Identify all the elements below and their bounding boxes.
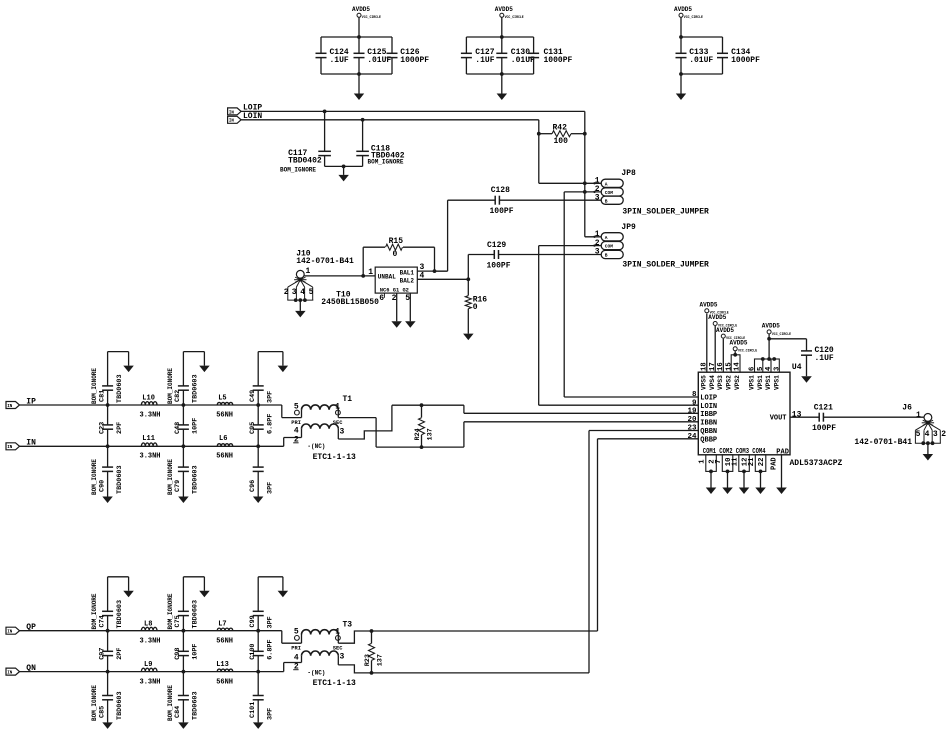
svg-text:R15: R15	[389, 237, 404, 246]
svg-text:L7: L7	[218, 620, 226, 628]
svg-text:IN: IN	[229, 111, 235, 115]
capacitor C95	[257, 405, 259, 425]
wire T3 sec	[338, 631, 597, 643]
capacitor C121	[790, 416, 819, 418]
svg-text:16: 16	[717, 362, 725, 371]
svg-text:VPS4: VPS4	[709, 375, 716, 390]
svg-text:TBD0603: TBD0603	[116, 600, 124, 629]
svg-text:C99: C99	[249, 615, 257, 627]
svg-text:QBBN: QBBN	[700, 428, 717, 436]
svg-text:-(NC): -(NC)	[307, 443, 325, 450]
svg-text:100: 100	[554, 137, 569, 146]
svg-text:11: 11	[732, 457, 740, 466]
svg-text:COM: COM	[605, 244, 614, 250]
port LOIP	[228, 108, 242, 115]
svg-text:4: 4	[300, 288, 305, 297]
svg-text:BAL1: BAL1	[400, 269, 415, 276]
svg-text:20: 20	[687, 416, 697, 424]
svg-text:2: 2	[941, 430, 946, 439]
inductor L8	[141, 627, 157, 630]
transformer T3	[281, 631, 283, 644]
wire T10 pin4	[417, 278, 468, 280]
capacitor C96	[256, 444, 260, 448]
svg-text:IBBP: IBBP	[700, 411, 717, 419]
svg-text:0: 0	[473, 303, 478, 312]
svg-text:SEC: SEC	[333, 420, 343, 426]
svg-text:100PF: 100PF	[487, 262, 511, 271]
svg-text:IN: IN	[7, 405, 13, 409]
capacitor C117	[323, 110, 327, 114]
svg-text:ADL5373ACPZ: ADL5373ACPZ	[790, 459, 843, 468]
inductor L11	[141, 443, 157, 446]
capacitor C131	[533, 37, 535, 53]
capacitor C133	[680, 37, 682, 53]
svg-text:COM: COM	[605, 190, 614, 196]
wire	[321, 36, 392, 38]
svg-text:C96: C96	[249, 480, 257, 492]
port IN	[6, 443, 20, 450]
svg-text:3.3NH: 3.3NH	[140, 678, 161, 686]
svg-text:3PF: 3PF	[266, 616, 274, 628]
solder jumper JP8	[601, 179, 623, 187]
svg-text:C48: C48	[174, 422, 182, 434]
svg-text:A: A	[605, 181, 608, 187]
svg-text:TBD0603: TBD0603	[192, 691, 200, 720]
wire IBBN	[463, 422, 465, 447]
svg-text:5: 5	[309, 288, 314, 297]
svg-text:C81: C81	[98, 390, 106, 402]
capacitor C101	[256, 670, 260, 674]
wire IN	[20, 445, 284, 447]
svg-text:VCC_CIRCLE: VCC_CIRCLE	[505, 15, 524, 19]
wire	[304, 275, 375, 277]
resistor R42	[539, 133, 552, 135]
ground	[463, 334, 474, 341]
svg-text:TBD0603: TBD0603	[116, 691, 124, 720]
capacitor C79	[182, 444, 186, 448]
wire T10 pin3	[417, 270, 447, 272]
transformer T1	[281, 405, 283, 418]
svg-text:B: B	[605, 198, 608, 204]
wire QBBN	[588, 431, 590, 673]
svg-text:23: 23	[687, 425, 697, 433]
svg-text:1: 1	[699, 459, 707, 464]
svg-text:TBD0603: TBD0603	[192, 465, 200, 494]
svg-text:13: 13	[792, 410, 802, 419]
IC U4 ADL5373ACPZ	[698, 372, 790, 455]
svg-text:100PF: 100PF	[490, 207, 514, 216]
inductor L6	[217, 444, 233, 447]
svg-text:VPS1: VPS1	[765, 375, 772, 390]
capacitor C97	[107, 631, 109, 652]
svg-text:1: 1	[335, 628, 340, 637]
capacitor C124	[320, 37, 322, 53]
capacitor C98	[182, 631, 184, 652]
wire T1 sec to R24	[338, 417, 376, 419]
svg-text:JP9: JP9	[621, 223, 636, 232]
svg-text:IN: IN	[7, 446, 13, 450]
svg-text:AVDD5: AVDD5	[730, 340, 748, 347]
svg-text:VPS2: VPS2	[734, 375, 741, 390]
wire IBBP	[463, 405, 465, 413]
svg-text:1: 1	[595, 230, 600, 239]
svg-text:56NH: 56NH	[216, 412, 233, 420]
svg-text:C23: C23	[98, 422, 106, 434]
svg-text:24: 24	[687, 433, 697, 441]
svg-text:AVDD5: AVDD5	[352, 6, 370, 13]
svg-text:10PF: 10PF	[192, 643, 200, 659]
svg-text:C90: C90	[98, 480, 106, 492]
svg-text:100PF: 100PF	[812, 424, 836, 433]
svg-text:18: 18	[700, 362, 708, 371]
svg-text:VPS5: VPS5	[701, 375, 708, 390]
svg-text:ETC1-1-13: ETC1-1-13	[313, 453, 356, 462]
svg-text:A: A	[605, 235, 608, 241]
wire	[466, 36, 533, 38]
svg-text:IN: IN	[7, 631, 13, 635]
svg-text:C97: C97	[98, 648, 106, 660]
capacitor C85	[106, 670, 110, 674]
ground	[358, 74, 360, 94]
capacitor C125	[358, 37, 360, 53]
svg-text:BOM_IGNORE: BOM_IGNORE	[167, 685, 174, 721]
svg-text:C75: C75	[174, 615, 182, 627]
svg-text:L10: L10	[142, 394, 155, 402]
svg-text:10PF: 10PF	[192, 418, 200, 434]
svg-text:3PIN_SOLDER_JUMPER: 3PIN_SOLDER_JUMPER	[622, 260, 709, 269]
svg-text:3.3NH: 3.3NH	[140, 638, 161, 646]
capacitor C130	[501, 37, 503, 53]
svg-text:5: 5	[294, 628, 299, 637]
svg-text:VPS1: VPS1	[757, 375, 764, 390]
svg-text:4: 4	[925, 430, 930, 439]
svg-text:.1UF: .1UF	[475, 56, 494, 65]
svg-text:C98: C98	[174, 648, 182, 660]
svg-text:3PF: 3PF	[266, 391, 274, 403]
svg-text:IBBN: IBBN	[700, 420, 717, 428]
svg-text:T1: T1	[343, 395, 353, 404]
port IP	[6, 402, 20, 409]
svg-text:56NH: 56NH	[216, 453, 233, 461]
resistor R24	[392, 404, 464, 406]
wire JP9 COM to U4 LOIN	[539, 245, 602, 247]
svg-text:VPS1: VPS1	[774, 375, 781, 390]
svg-text:-(NC): -(NC)	[307, 670, 325, 677]
svg-text:BAL2: BAL2	[400, 278, 415, 285]
svg-text:VOUT: VOUT	[770, 415, 787, 423]
svg-text:VCC_CIRCLE: VCC_CIRCLE	[738, 349, 757, 353]
svg-text:ETC1-1-13: ETC1-1-13	[313, 679, 356, 688]
svg-text:C101: C101	[249, 702, 257, 718]
svg-text:L13: L13	[216, 661, 229, 669]
svg-text:137: 137	[377, 654, 385, 666]
svg-text:C79: C79	[174, 480, 182, 492]
svg-text:PAD: PAD	[771, 457, 779, 470]
svg-text:C49: C49	[249, 390, 257, 402]
svg-text:AVDD5: AVDD5	[495, 6, 513, 13]
svg-text:LOIP: LOIP	[700, 395, 717, 403]
svg-text:R42: R42	[553, 123, 568, 132]
svg-text:BOM_IGNORE: BOM_IGNORE	[91, 368, 98, 404]
capacitor C128	[448, 199, 496, 201]
resistor R15	[362, 247, 364, 276]
svg-text:2PF: 2PF	[116, 648, 124, 660]
svg-text:C100: C100	[249, 643, 257, 659]
capacitor C82	[182, 403, 186, 407]
svg-text:7: 7	[715, 459, 723, 463]
svg-text:BOM_IGNORE: BOM_IGNORE	[167, 593, 174, 629]
svg-text:L8: L8	[144, 620, 152, 628]
capacitor C81	[106, 403, 110, 407]
svg-text:C82: C82	[174, 390, 182, 402]
svg-text:BOM_IGNORE: BOM_IGNORE	[167, 459, 174, 495]
capacitor C48	[182, 405, 184, 425]
svg-text:1: 1	[306, 267, 311, 276]
solder jumper JP9	[601, 233, 623, 241]
svg-text:BOM_IGNORE: BOM_IGNORE	[91, 459, 98, 495]
svg-text:8: 8	[692, 391, 697, 399]
svg-text:22: 22	[758, 458, 766, 467]
ground	[343, 166, 345, 175]
svg-text:BOM_IGNORE: BOM_IGNORE	[91, 593, 98, 629]
capacitor C134	[722, 37, 724, 53]
capacitor C120	[769, 338, 806, 340]
svg-text:3PIN_SOLDER_JUMPER: 3PIN_SOLDER_JUMPER	[622, 208, 709, 217]
capacitor C84	[182, 670, 186, 674]
svg-text:J6: J6	[902, 404, 912, 413]
svg-text:1: 1	[335, 402, 340, 411]
balun T10	[375, 267, 417, 293]
svg-text:1: 1	[368, 268, 373, 277]
svg-text:3: 3	[340, 428, 345, 437]
svg-text:L9: L9	[144, 661, 152, 669]
svg-text:3: 3	[595, 193, 600, 202]
svg-text:3: 3	[595, 248, 600, 257]
svg-text:3.3NH: 3.3NH	[140, 453, 161, 461]
port QP	[6, 627, 20, 634]
svg-text:19: 19	[687, 407, 697, 415]
svg-text:L11: L11	[142, 435, 155, 443]
T10 ground pins	[383, 293, 385, 298]
wire QN	[20, 671, 284, 673]
svg-text:2PF: 2PF	[116, 422, 124, 434]
svg-text:142-0701-B41: 142-0701-B41	[296, 257, 354, 266]
svg-text:5: 5	[294, 402, 299, 411]
svg-text:JP8: JP8	[621, 169, 636, 178]
svg-text:TBD0402: TBD0402	[288, 157, 322, 166]
svg-text:VCC_CIRCLE: VCC_CIRCLE	[772, 332, 791, 336]
svg-text:PRI: PRI	[291, 420, 301, 426]
resistor R23	[370, 629, 374, 633]
wire QP	[20, 630, 282, 632]
svg-text:VCC_CIRCLE: VCC_CIRCLE	[362, 15, 381, 19]
svg-text:IN: IN	[229, 120, 235, 124]
svg-text:3: 3	[340, 653, 345, 662]
svg-text:3: 3	[774, 367, 782, 371]
svg-text:1000PF: 1000PF	[400, 56, 429, 65]
svg-text:LOIN: LOIN	[700, 403, 717, 411]
svg-text:.1UF: .1UF	[330, 56, 349, 65]
svg-text:VCC_CIRCLE: VCC_CIRCLE	[684, 15, 703, 19]
svg-text:AVDD5: AVDD5	[716, 327, 734, 334]
wire	[325, 165, 363, 167]
svg-text:3: 3	[292, 288, 297, 297]
svg-text:4: 4	[294, 654, 299, 663]
svg-text:TBD0603: TBD0603	[116, 374, 124, 403]
svg-text:1: 1	[916, 411, 921, 420]
svg-text:137: 137	[427, 428, 435, 440]
svg-text:VPS3: VPS3	[717, 375, 724, 390]
inductor L13	[217, 669, 233, 672]
svg-text:17: 17	[709, 362, 717, 371]
port QN	[6, 668, 20, 675]
capacitor C49	[256, 403, 260, 407]
wire JP8 COM to U4 LOIP	[564, 191, 601, 193]
svg-text:2: 2	[392, 294, 397, 303]
svg-text:C84: C84	[174, 706, 182, 718]
inductor L9	[141, 668, 157, 671]
svg-text:C129: C129	[487, 241, 506, 250]
svg-text:TBD0603: TBD0603	[192, 374, 200, 403]
svg-text:PAD: PAD	[776, 448, 789, 456]
svg-text:QBBP: QBBP	[700, 437, 717, 445]
svg-text:2450BL15B050: 2450BL15B050	[321, 298, 379, 307]
ground	[501, 74, 503, 94]
svg-text:2: 2	[595, 239, 600, 248]
svg-text:6.8PF: 6.8PF	[266, 639, 274, 659]
svg-text:C85: C85	[98, 706, 106, 718]
ground	[680, 74, 682, 94]
svg-text:56NH: 56NH	[216, 678, 233, 686]
capacitor C23	[107, 405, 109, 425]
inductor L7	[217, 628, 233, 631]
svg-text:9: 9	[692, 399, 697, 407]
svg-text:AVDD5: AVDD5	[674, 6, 692, 13]
svg-text:T3: T3	[343, 620, 353, 629]
svg-text:C74: C74	[98, 615, 106, 627]
svg-text:.1UF: .1UF	[815, 354, 834, 363]
svg-text:142-0701-B41: 142-0701-B41	[854, 438, 912, 447]
svg-text:R23: R23	[364, 654, 372, 666]
svg-text:5: 5	[757, 367, 765, 371]
svg-text:0: 0	[393, 250, 398, 259]
svg-text:C128: C128	[491, 186, 510, 195]
svg-text:TBD0603: TBD0603	[192, 600, 200, 629]
ground	[801, 376, 812, 383]
inductor L10	[141, 402, 157, 405]
svg-text:VPS2: VPS2	[725, 375, 732, 390]
svg-text:4: 4	[294, 427, 299, 436]
wire LOIP	[241, 110, 585, 112]
capacitor C100	[257, 631, 259, 652]
port LOIN	[228, 116, 242, 123]
svg-text:3PF: 3PF	[266, 708, 274, 720]
svg-text:1000PF: 1000PF	[731, 56, 760, 65]
svg-text:UNBAL: UNBAL	[378, 273, 396, 280]
svg-text:U4: U4	[792, 363, 802, 372]
svg-text:BOM_IGNORE: BOM_IGNORE	[280, 167, 316, 174]
wire LOIN	[241, 119, 539, 121]
svg-text:15: 15	[725, 362, 733, 371]
svg-text:6: 6	[379, 294, 384, 303]
wire QBBP	[597, 439, 599, 631]
capacitor C90	[106, 444, 110, 448]
svg-text:TBD0603: TBD0603	[116, 465, 124, 494]
svg-text:IN: IN	[7, 672, 13, 676]
svg-text:5: 5	[405, 294, 410, 303]
svg-text:VPS1: VPS1	[749, 375, 756, 390]
svg-text:.01UF: .01UF	[689, 56, 713, 65]
capacitor C129	[467, 255, 469, 280]
svg-text:C95: C95	[249, 422, 257, 434]
svg-text:B: B	[605, 253, 608, 259]
svg-text:3PF: 3PF	[266, 482, 274, 494]
svg-text:4: 4	[765, 366, 773, 371]
svg-text:C121: C121	[814, 404, 833, 413]
capacitor C126	[391, 37, 393, 53]
svg-text:5: 5	[916, 430, 921, 439]
svg-text:AVDD5: AVDD5	[762, 323, 780, 330]
svg-text:NC6 G1 G2: NC6 G1 G2	[380, 288, 409, 294]
svg-text:AVDD5: AVDD5	[700, 302, 718, 309]
svg-text:R24: R24	[414, 428, 422, 440]
svg-text:6.8PF: 6.8PF	[266, 414, 274, 434]
capacitor C75	[182, 629, 186, 633]
wire	[681, 36, 723, 38]
svg-text:1000PF: 1000PF	[544, 56, 573, 65]
svg-text:BOM_IGNORE: BOM_IGNORE	[368, 158, 404, 165]
svg-text:3.3NH: 3.3NH	[140, 412, 161, 420]
capacitor C99	[256, 629, 260, 633]
svg-text:AVDD5: AVDD5	[708, 314, 726, 321]
inductor L5	[217, 402, 233, 405]
svg-text:L5: L5	[218, 394, 226, 402]
svg-text:56NH: 56NH	[216, 638, 233, 646]
svg-text:L6: L6	[219, 435, 227, 443]
svg-text:6: 6	[749, 367, 757, 371]
svg-text:21: 21	[748, 457, 756, 466]
wire IP	[20, 404, 282, 406]
svg-text:PRI: PRI	[291, 645, 301, 651]
svg-text:3: 3	[933, 430, 938, 439]
wire	[447, 200, 449, 271]
resistor R16	[466, 277, 470, 281]
capacitor C127	[465, 37, 467, 53]
svg-text:BOM_IGNORE: BOM_IGNORE	[167, 368, 174, 404]
capacitor C74	[106, 629, 110, 633]
capacitor C118	[361, 118, 365, 122]
svg-text:BOM_IGNORE: BOM_IGNORE	[91, 685, 98, 721]
svg-text:2: 2	[284, 288, 289, 297]
